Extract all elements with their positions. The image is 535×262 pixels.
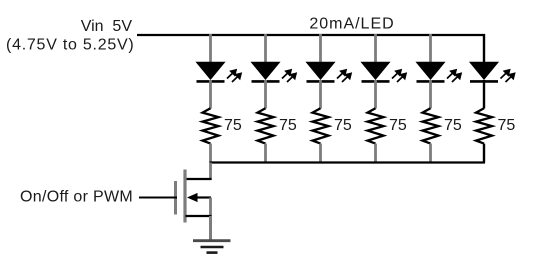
- resistor R4 75 ohm: [368, 108, 384, 143]
- resistor R6 75 ohm: [476, 108, 492, 143]
- wire: branch 2 top (rail to LED D2 anode): [264, 34, 267, 63]
- wire: branch 1 LED D1 cathode to resistor R1: [209, 80, 212, 109]
- svg-text:75: 75: [334, 117, 352, 134]
- resistor R5 75 ohm: [423, 108, 439, 143]
- wire: bottom rail down to MOSFET drain: [209, 163, 212, 181]
- LED D6: [470, 62, 515, 82]
- LED D1: [197, 62, 242, 82]
- svg-text:75: 75: [444, 117, 462, 134]
- wire: bottom rail (LED cathode bus): [210, 161, 486, 163]
- wire: branch 6 resistor R6 to bottom rail: [483, 144, 485, 163]
- svg-text:Vin 5V: Vin 5V: [81, 18, 133, 35]
- ground: [193, 241, 231, 253]
- wire: branch 2 resistor R2 to bottom rail: [264, 144, 267, 163]
- wire: source to ground: [209, 216, 212, 240]
- wire: branch 3 top (rail to LED D3 anode): [319, 34, 322, 63]
- svg-text:75: 75: [498, 117, 516, 134]
- svg-text:On/Off or PWM: On/Off or PWM: [20, 189, 133, 206]
- wire: branch 4 top (rail to LED D4 anode): [374, 34, 377, 63]
- transistor Q1 (N-channel MOSFET): [176, 170, 212, 223]
- wire: branch 3 resistor R3 to bottom rail: [319, 144, 322, 163]
- wire: branch 1 resistor R1 to bottom rail: [209, 144, 212, 163]
- wire: branch 6 LED D6 cathode to resistor R6: [483, 80, 485, 109]
- wire: branch 4 resistor R4 to bottom rail: [374, 144, 377, 163]
- wire: drain horizontal into Q1: [186, 178, 212, 180]
- svg-text:75: 75: [224, 117, 242, 134]
- wire: branch 5 resistor R5 to bottom rail: [429, 144, 432, 163]
- svg-text:75: 75: [279, 117, 297, 134]
- wire: branch 2 LED D2 cathode to resistor R2: [264, 80, 267, 109]
- svg-text:75: 75: [389, 117, 407, 134]
- wire: branch 4 LED D4 cathode to resistor R4: [374, 80, 377, 109]
- svg-text:(4.75V to 5.25V): (4.75V to 5.25V): [6, 37, 135, 54]
- wire: branch 3 LED D3 cathode to resistor R3: [319, 80, 322, 109]
- wire: gate lead: [139, 197, 177, 199]
- wire: branch 5 top (rail to LED D5 anode): [429, 34, 432, 63]
- svg-text:20mA/LED: 20mA/LED: [309, 16, 394, 33]
- LED D2: [252, 62, 297, 82]
- wire: top supply rail Vin: [137, 34, 485, 36]
- LED D3: [307, 62, 352, 82]
- LED D5: [417, 62, 462, 82]
- resistor R1 75 ohm: [203, 108, 219, 143]
- wire: branch 1 top (rail to LED D1 anode): [209, 34, 212, 63]
- resistor R3 75 ohm: [313, 108, 329, 143]
- wire: branch 6 top (rail to LED D6 anode): [483, 34, 485, 63]
- LED D4: [362, 62, 407, 82]
- wire: branch 5 LED D5 cathode to resistor R5: [429, 80, 432, 109]
- resistor R2 75 ohm: [258, 108, 274, 143]
